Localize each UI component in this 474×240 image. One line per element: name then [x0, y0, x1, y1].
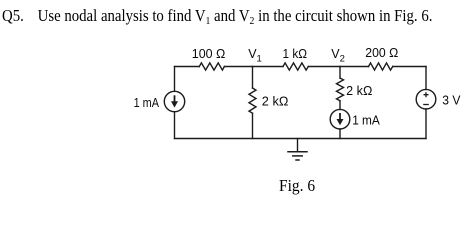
wire left rail lower: [174, 112, 176, 139]
resistor R1 100 ohm: [199, 63, 224, 70]
wire node V1 branch lower: [252, 113, 254, 138]
wire top between node V2 and R3: [340, 66, 369, 68]
wire left rail upper: [174, 67, 176, 92]
resistor R5 2 kohm vertical: [337, 78, 344, 101]
figure caption: [279, 176, 315, 196]
current source I2 arrow: [337, 113, 344, 125]
wire between R5 and current source I2: [339, 101, 341, 110]
current source I1 arrow: [171, 95, 178, 107]
svg-text:1 mA: 1 mA: [352, 113, 380, 127]
svg-text:200 Ω: 200 Ω: [365, 46, 398, 60]
ground bar 2: [293, 155, 302, 157]
title question text: [2, 6, 432, 26]
wire bottom rail: [175, 138, 427, 140]
svg-text:V1: V1: [248, 47, 262, 65]
voltage source V3 plus sign: [423, 92, 429, 104]
current source I2 1mA circle: [330, 109, 350, 129]
wire right rail lower: [425, 109, 427, 139]
svg-text:1 mA: 1 mA: [134, 96, 160, 110]
wire right rail upper: [425, 67, 427, 90]
svg-text:100 Ω: 100 Ω: [192, 47, 226, 61]
voltage source V3 minus sign: [423, 104, 429, 106]
svg-text:V2: V2: [331, 47, 345, 65]
resistor R3 200 ohm: [369, 63, 393, 70]
wire top between R2 and node V2: [308, 66, 340, 68]
ground stem: [297, 139, 299, 152]
svg-text:2 kΩ: 2 kΩ: [346, 84, 372, 98]
svg-text:3 V: 3 V: [442, 94, 461, 108]
ground bar 3: [296, 159, 299, 161]
wire top between R1 and node V1: [224, 66, 252, 68]
wire node V1 branch upper: [252, 67, 254, 89]
current source I1 1mA circle: [164, 91, 184, 111]
svg-text:2 kΩ: 2 kΩ: [262, 94, 289, 108]
wire node V2 branch upper: [339, 67, 341, 79]
resistor R2 1 kohm: [283, 63, 308, 70]
ground bar 1: [288, 151, 307, 153]
wire top-left segment: [175, 66, 200, 68]
wire below current source I2: [339, 129, 341, 139]
wire top between node V1 and R2: [253, 66, 284, 68]
wire top-right segment: [393, 66, 426, 68]
resistor R4 2 kohm vertical: [249, 88, 256, 113]
voltage source V3 3V circle: [416, 89, 436, 109]
svg-text:1 kΩ: 1 kΩ: [283, 47, 308, 61]
